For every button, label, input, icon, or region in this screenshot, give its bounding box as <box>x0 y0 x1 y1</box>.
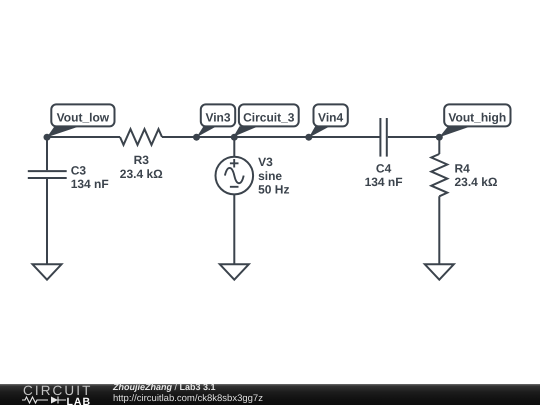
ground (right) <box>425 264 454 279</box>
footer bar with CircuitLab logo and attribution <box>0 384 540 405</box>
value label C4 134 nF <box>365 162 403 190</box>
svg-text:Vin3: Vin3 <box>205 110 230 124</box>
svg-text:R4: R4 <box>455 162 471 176</box>
svg-text:sine: sine <box>258 169 282 183</box>
svg-text:R3: R3 <box>134 153 150 167</box>
ground (middle) <box>220 264 249 279</box>
wire: R4 bottom to right ground <box>438 196 440 264</box>
svg-text:Vout_high: Vout_high <box>448 110 506 124</box>
wire main horizontal: Vout_low node to R3 left <box>47 136 120 138</box>
wire: C4 right plate to Vout_high node <box>388 136 440 138</box>
voltage source V3 (sine) <box>216 157 254 195</box>
wire: V3 junction down to V3 top terminal <box>233 137 235 157</box>
ground (left) <box>33 264 62 279</box>
junction node: Vin4 <box>305 134 312 141</box>
node flag Vin3 <box>197 104 236 137</box>
svg-text:50 Hz: 50 Hz <box>258 183 289 197</box>
junction node: Vout_high <box>436 134 443 141</box>
wire: Vout_high node down to R4 top <box>438 137 440 154</box>
svg-text:Vout_low: Vout_low <box>57 110 110 124</box>
svg-text:Vin4: Vin4 <box>318 110 343 124</box>
node flag Vout_high <box>439 104 510 137</box>
resistor R3 <box>120 129 162 145</box>
value label R3 23.4 kΩ <box>120 153 163 181</box>
wire: C3 bottom plate to left ground <box>46 179 48 264</box>
node flag Circuit_3 <box>233 104 298 136</box>
node flag Vout_low <box>47 104 115 137</box>
svg-text:23.4 kΩ: 23.4 kΩ <box>455 175 498 189</box>
wire: V3 junction to C4 left plate <box>234 136 379 138</box>
svg-text:23.4 kΩ: 23.4 kΩ <box>120 167 163 181</box>
value label V3 sine 50 Hz <box>258 155 289 197</box>
wire: R3 right to V3 top junction <box>162 136 234 138</box>
junction node: Vin3 <box>193 134 200 141</box>
junction node: Circuit_3 / V3 <box>231 134 238 141</box>
svg-text:Circuit_3: Circuit_3 <box>243 110 295 124</box>
svg-text:V3: V3 <box>258 155 273 169</box>
wire: V3 bottom terminal to middle ground <box>233 194 235 264</box>
svg-text:134 nF: 134 nF <box>365 175 403 189</box>
wire: Vout_low node down to C3 top plate <box>46 137 48 170</box>
capacitor C4 <box>380 118 386 157</box>
node flag Vin4 <box>309 104 348 137</box>
svg-text:C4: C4 <box>376 162 392 176</box>
junction node: Vout_low <box>44 134 51 141</box>
svg-text:C3: C3 <box>71 163 87 177</box>
svg-text:134 nF: 134 nF <box>71 177 109 191</box>
value label R4 23.4 kΩ <box>455 162 498 190</box>
resistor R4 <box>431 154 447 196</box>
value label C3 134 nF <box>71 163 109 191</box>
capacitor C3 <box>28 171 67 178</box>
